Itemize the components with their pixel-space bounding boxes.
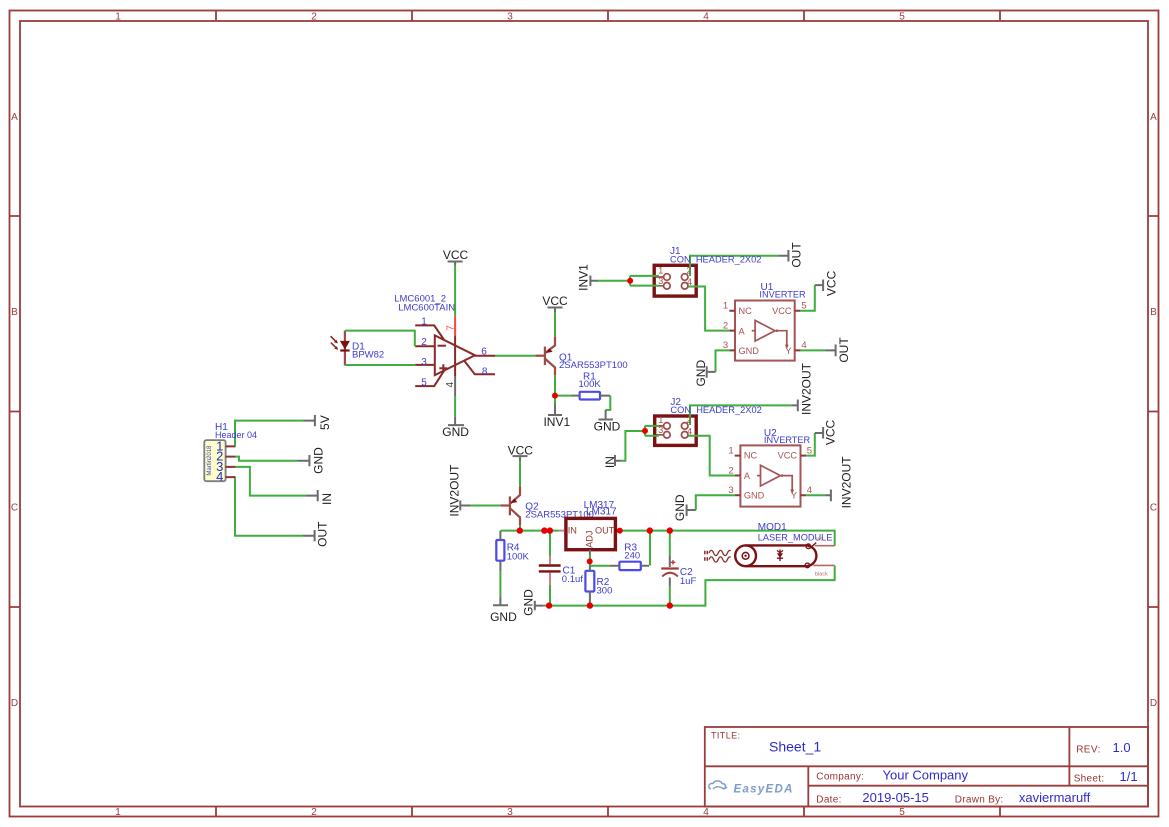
svg-text:2: 2 [723, 320, 728, 331]
svg-text:Company:: Company: [816, 772, 864, 783]
svg-text:5: 5 [801, 301, 806, 312]
svg-text:D: D [11, 698, 18, 709]
svg-text:GND: GND [673, 494, 687, 521]
svg-text:1.0: 1.0 [1113, 740, 1131, 755]
svg-text:Date:: Date: [816, 795, 841, 806]
svg-text:A: A [739, 326, 746, 336]
svg-text:7: 7 [446, 325, 457, 331]
svg-text:2SAR553PT100: 2SAR553PT100 [559, 360, 628, 371]
svg-text:5: 5 [421, 378, 427, 389]
svg-text:GND: GND [694, 360, 708, 387]
svg-text:240: 240 [624, 550, 640, 561]
svg-text:Header 04: Header 04 [215, 430, 257, 440]
svg-text:REV:: REV: [1076, 745, 1101, 756]
svg-text:CON_HEADER_2X02: CON_HEADER_2X02 [670, 255, 761, 265]
svg-text:GND: GND [594, 420, 621, 434]
svg-text:MOD1: MOD1 [758, 522, 787, 533]
svg-text:EasyEDA: EasyEDA [734, 784, 794, 796]
svg-text:Drawn By:: Drawn By: [955, 795, 1004, 806]
svg-text:4: 4 [801, 340, 806, 351]
svg-text:100K: 100K [579, 379, 602, 390]
svg-text:GND: GND [312, 447, 326, 474]
svg-text:C: C [11, 503, 18, 514]
svg-text:A: A [744, 471, 751, 481]
svg-text:VCC: VCC [542, 294, 568, 308]
svg-text:8: 8 [482, 367, 488, 378]
svg-text:INV2OUT: INV2OUT [840, 456, 854, 509]
svg-text:VCC: VCC [508, 444, 534, 458]
svg-text:5V: 5V [318, 415, 332, 430]
svg-text:5: 5 [807, 445, 812, 456]
svg-text:LM317: LM317 [586, 507, 617, 518]
svg-text:1: 1 [421, 316, 427, 327]
svg-text:red: red [816, 537, 824, 543]
svg-text:OUT: OUT [315, 521, 329, 547]
svg-text:2: 2 [686, 415, 691, 425]
svg-text:GND: GND [522, 589, 536, 616]
svg-text:1: 1 [728, 445, 733, 456]
svg-text:100K: 100K [507, 551, 530, 562]
svg-text:1: 1 [723, 301, 728, 312]
svg-text:3: 3 [728, 485, 733, 496]
svg-text:5: 5 [899, 12, 905, 23]
svg-text:Your Company: Your Company [883, 768, 969, 783]
svg-text:1/1: 1/1 [1120, 769, 1138, 784]
svg-text:ADJ: ADJ [584, 531, 594, 548]
svg-text:2: 2 [421, 337, 427, 348]
svg-text:0.1uf: 0.1uf [562, 574, 583, 585]
svg-text:2: 2 [686, 266, 691, 276]
svg-text:NC: NC [744, 451, 758, 461]
svg-text:INVERTER: INVERTER [764, 435, 811, 445]
svg-text:3: 3 [723, 340, 728, 351]
svg-text:3: 3 [658, 276, 663, 286]
svg-text:Sheet_1: Sheet_1 [769, 739, 821, 755]
svg-text:VCC: VCC [443, 248, 469, 262]
svg-text:3: 3 [507, 12, 513, 23]
svg-text:OUT: OUT [595, 525, 615, 535]
svg-text:VCC: VCC [778, 451, 798, 461]
svg-text:Sheet:: Sheet: [1074, 774, 1105, 785]
svg-text:INVERTER: INVERTER [759, 289, 806, 299]
svg-text:INV2OUT: INV2OUT [447, 464, 461, 517]
svg-text:OUT: OUT [790, 242, 804, 268]
svg-text:3: 3 [421, 357, 427, 368]
svg-text:NC: NC [739, 306, 753, 316]
svg-text:BPW82: BPW82 [352, 349, 384, 360]
svg-text:VCC: VCC [772, 306, 792, 316]
svg-text:D: D [1150, 698, 1157, 709]
svg-text:IN: IN [320, 493, 334, 505]
svg-text:Martin2018: Martin2018 [207, 445, 213, 476]
svg-text:2019-05-15: 2019-05-15 [862, 790, 929, 805]
svg-text:1: 1 [115, 807, 121, 818]
svg-text:3: 3 [507, 807, 513, 818]
svg-text:GND: GND [490, 610, 517, 624]
svg-text:2: 2 [311, 12, 317, 23]
svg-text:4: 4 [687, 427, 692, 437]
svg-text:2: 2 [311, 807, 317, 818]
svg-text:4: 4 [687, 277, 692, 287]
svg-text:4: 4 [807, 485, 812, 496]
svg-text:VCC: VCC [824, 420, 838, 446]
svg-text:C: C [1150, 503, 1157, 514]
svg-text:4: 4 [216, 469, 223, 484]
svg-text:2: 2 [728, 465, 733, 476]
svg-text:300: 300 [597, 586, 613, 597]
svg-text:IN: IN [603, 456, 617, 468]
svg-text:OUT: OUT [837, 337, 851, 363]
svg-text:6: 6 [481, 346, 487, 357]
svg-text:GND: GND [739, 346, 760, 356]
svg-text:TITLE:: TITLE: [711, 731, 740, 741]
svg-text:GND: GND [744, 491, 765, 501]
svg-text:1uF: 1uF [680, 576, 697, 587]
svg-text:A: A [1150, 112, 1157, 123]
svg-text:A: A [11, 112, 18, 123]
svg-text:IN: IN [568, 525, 577, 535]
svg-text:GND: GND [442, 425, 469, 439]
svg-text:INV2OUT: INV2OUT [799, 362, 813, 415]
svg-text:VCC: VCC [825, 270, 839, 296]
svg-text:LMC600TAIN: LMC600TAIN [398, 302, 455, 313]
svg-text:3: 3 [658, 425, 663, 435]
svg-text:xaviermaruff: xaviermaruff [1019, 790, 1091, 805]
svg-text:B: B [1150, 307, 1157, 318]
svg-text:INV1: INV1 [543, 415, 570, 429]
svg-text:4: 4 [445, 381, 456, 387]
svg-text:CON_HEADER_2X02: CON_HEADER_2X02 [670, 405, 761, 415]
svg-text:4: 4 [703, 12, 709, 23]
svg-text:1: 1 [658, 266, 663, 276]
svg-text:5: 5 [899, 807, 905, 818]
svg-text:1: 1 [115, 12, 121, 23]
svg-text:4: 4 [703, 807, 709, 818]
svg-text:1: 1 [658, 415, 663, 425]
svg-text:B: B [11, 307, 18, 318]
svg-text:black: black [815, 572, 828, 578]
svg-text:INV1: INV1 [577, 264, 591, 291]
